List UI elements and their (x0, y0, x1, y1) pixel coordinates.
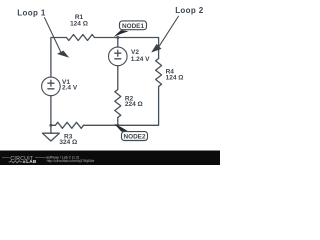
junction dot bottom (NODE2) (116, 124, 119, 127)
svg-text:224 Ω: 224 Ω (125, 101, 143, 108)
wire R3 to ground junction (51, 124, 56, 126)
wire R1 to top-right corner (95, 38, 159, 59)
loop 1 arrowhead (57, 51, 69, 58)
svg-text:124 Ω: 124 Ω (70, 21, 88, 28)
V1 minus sign (48, 88, 54, 90)
V1 plus sign (48, 80, 54, 86)
ground stub (50, 125, 52, 133)
footer logo LAB block glyph (23, 161, 26, 163)
NODE2 leader swoosh (114, 124, 128, 132)
footer logo resistor zigzag (9, 161, 22, 163)
resistor R2 zigzag (115, 90, 121, 118)
V2 minus sign (115, 58, 121, 60)
resistor R1 zigzag (67, 35, 95, 41)
svg-text:LAB: LAB (26, 159, 37, 164)
loop 2 arrow line (159, 16, 179, 46)
wire top-left corner to V1 top (left wire upper) (51, 38, 67, 78)
resistor R4 zigzag (156, 59, 162, 87)
resistor R3 zigzag (55, 122, 83, 128)
wire V1 bottom lead (50, 96, 52, 126)
ground triangle (42, 133, 59, 141)
wire V2 branch top (117, 38, 119, 48)
svg-text:http://circuitlab.com/cq37f6j6: http://circuitlab.com/cq37f6j65dr (47, 159, 96, 163)
wire R4 to bottom-right corner (84, 87, 159, 126)
svg-text:Loop 2: Loop 2 (175, 6, 204, 15)
loop 2 arrowhead (151, 44, 161, 53)
wire V2 to R2 (117, 66, 119, 90)
svg-text:324 Ω: 324 Ω (59, 139, 77, 146)
V2 plus sign (115, 50, 121, 56)
footer watermark bar (0, 151, 220, 166)
NODE1 flag box (120, 21, 147, 30)
svg-text:NODE1: NODE1 (122, 23, 144, 30)
loop 1 arrow line (44, 17, 61, 52)
wire R2 to bottom junction (117, 118, 119, 126)
junction dot top (NODE1) (116, 36, 119, 39)
svg-text:1.24 V: 1.24 V (131, 56, 150, 63)
footer logo side lines (2, 157, 47, 159)
svg-text:2.4 V: 2.4 V (62, 85, 78, 92)
svg-text:Loop 1: Loop 1 (17, 8, 46, 17)
voltage source V1 circle (42, 77, 61, 96)
NODE2 flag box (122, 132, 148, 141)
svg-text:NODE2: NODE2 (123, 134, 145, 141)
NODE1 leader swoosh (114, 30, 129, 37)
svg-text:124 Ω: 124 Ω (166, 75, 184, 82)
junction dot ground node (49, 124, 52, 127)
voltage source V2 circle (109, 47, 128, 66)
